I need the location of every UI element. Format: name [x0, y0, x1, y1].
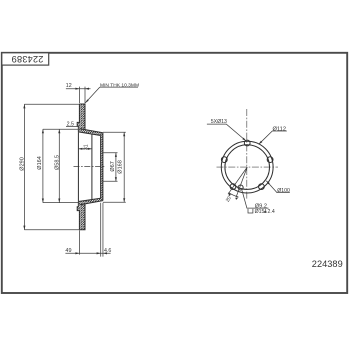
dim line D164: [42, 129, 44, 202]
ext lines 49 / 4.6: [79, 203, 103, 257]
ext line OD bottom: [24, 229, 79, 231]
hat face plate outline: [101, 133, 103, 201]
outer circle D112: [221, 141, 273, 193]
bolt hole top: [244, 140, 250, 146]
svg-text:4.6: 4.6: [104, 248, 111, 254]
svg-text:224389: 224389: [312, 259, 343, 269]
arrow D67 top: [115, 153, 117, 157]
arrow 31 right: [88, 148, 92, 150]
arrow D58.5 top: [58, 129, 60, 133]
leader D112: [259, 131, 287, 144]
friction ring bottom hatched: [79, 204, 85, 229]
svg-text:49: 49: [65, 248, 71, 254]
depth arrow symbol: [264, 209, 267, 213]
arrow D168 top: [123, 132, 125, 136]
dim line D58.5: [58, 129, 60, 202]
dim 31 line: [78, 148, 92, 150]
leader D9.2: [242, 190, 269, 208]
step bottom hatched: [77, 207, 79, 211]
arrow D58.5 bottom: [58, 199, 60, 203]
arrow leader D112: [259, 141, 263, 145]
radial line to bolt hole BL: [228, 167, 247, 194]
svg-text:Ø100: Ø100: [277, 188, 290, 194]
bolt hole right: [267, 157, 273, 163]
svg-text:5XØ13: 5XØ13: [211, 119, 227, 125]
setscrew hole D9.2: [238, 185, 243, 190]
arrow 12 right: [85, 88, 89, 90]
horizontal centerline: [217, 166, 279, 168]
svg-text:2.5: 2.5: [67, 122, 74, 128]
ext lines D168: [103, 132, 126, 202]
svg-text:Ø58.5: Ø58.5: [54, 155, 60, 170]
hat top wall outline: [78, 129, 103, 136]
arrow D67 bottom: [115, 177, 117, 181]
dim line 2.5: [66, 125, 79, 127]
svg-text:Ø290: Ø290: [20, 157, 26, 170]
counterbore symbol: [248, 209, 253, 213]
ext lines D67: [103, 153, 118, 182]
svg-text:Ø67: Ø67: [110, 161, 116, 171]
dim line D67: [115, 153, 117, 182]
centerline left view: [74, 166, 105, 168]
texts left view: [20, 82, 139, 254]
arrow 49 right: [97, 252, 101, 254]
ring bottom outline: [77, 202, 85, 230]
arrow D290 top: [23, 104, 25, 108]
hat top wall hatched: [78, 129, 103, 136]
ext line OD top: [24, 103, 79, 105]
svg-text:Ø168: Ø168: [118, 160, 124, 173]
vertical centerline: [246, 109, 248, 200]
step top hatched: [77, 122, 79, 126]
leader D100: [266, 181, 290, 193]
interior edge line B: [91, 134, 93, 199]
ext line hatOD top: [43, 128, 78, 130]
title box top-left: [2, 53, 49, 65]
svg-text:224389: 224389: [11, 54, 43, 64]
svg-text:31: 31: [83, 144, 89, 150]
friction ring top hatched: [79, 104, 85, 129]
dim line D168: [123, 132, 125, 202]
svg-text:12: 12: [66, 83, 72, 89]
dimension lines left view: [24, 87, 138, 257]
svg-text:MIN THK 10.3MM: MIN THK 10.3MM: [100, 82, 139, 88]
arrow leader 5xD13: [242, 138, 246, 141]
svg-text:Ø15: Ø15: [255, 209, 265, 215]
bolt hole bottom right: [259, 184, 265, 190]
inner circle D100: [225, 145, 270, 190]
dim line D290: [23, 104, 25, 229]
arrow 4.6 right: [103, 252, 107, 254]
bolt hole bottom left: [230, 184, 236, 190]
min thk leader: [85, 87, 138, 103]
svg-text:2.4: 2.4: [268, 209, 275, 215]
ext lines 12 dim: [79, 87, 85, 104]
drawing frame: [2, 53, 347, 293]
hat face plate hatched: [101, 133, 103, 201]
arrow D168 bottom: [123, 198, 125, 202]
dim line 12: [66, 88, 91, 90]
arrow 31 left: [78, 148, 82, 150]
arrow D164 bottom: [42, 199, 44, 203]
arrow 12 left: [75, 88, 79, 90]
arrow leader D100: [266, 181, 270, 185]
hat bottom wall hatched: [78, 198, 103, 205]
arrow minthk: [85, 99, 88, 103]
arrow D290 bottom: [23, 226, 25, 230]
svg-text:Ø164: Ø164: [37, 156, 43, 169]
arc arrow a: [228, 192, 231, 196]
angle arc 20deg: [229, 193, 239, 197]
ext line hatOD bottom: [43, 202, 78, 204]
interior edge line A: [77, 132, 79, 201]
leader 5xD13: [207, 124, 246, 141]
arrowheads left view: [23, 88, 125, 255]
bolt hole left: [221, 157, 227, 163]
ring top outline: [77, 104, 85, 132]
arrow D164 top: [42, 129, 44, 133]
svg-text:Ø112: Ø112: [273, 126, 287, 132]
arc arrow b: [235, 197, 238, 200]
arrow 49 left: [75, 252, 79, 254]
radial line through setscrew: [236, 167, 247, 198]
hat bottom wall outline: [78, 198, 103, 205]
dim line 49 / 4.6: [65, 252, 110, 254]
